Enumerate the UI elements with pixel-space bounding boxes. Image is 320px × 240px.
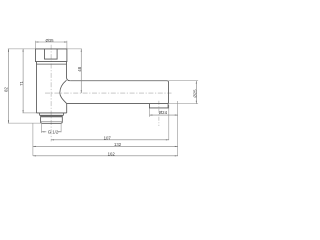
svg-text:Ø24: Ø24 — [159, 110, 167, 115]
arrow aerator right — [175, 115, 178, 116]
arrow dim107 left — [51, 139, 54, 140]
extension line aerator right vertical — [177, 101, 179, 156]
spout top edge — [70, 80, 167, 82]
arrow dim132 right — [175, 146, 178, 147]
body-spout intersection curve — [60, 80, 67, 103]
arrow dim48 top — [81, 49, 82, 52]
spout end face — [167, 81, 168, 104]
extension line wall plane vertical — [32, 123, 34, 156]
extension line base plane left — [23, 112, 37, 114]
dimension 48 line — [80, 49, 82, 93]
arrow dim132 left — [33, 146, 36, 147]
centerline body axis — [50, 45, 52, 142]
svg-text:82: 82 — [3, 87, 8, 92]
arrow aerator left — [150, 115, 153, 116]
extension line spout tip vertical — [168, 105, 170, 140]
svg-text:48: 48 — [77, 67, 82, 72]
svg-text:107: 107 — [104, 135, 111, 140]
svg-text:71: 71 — [19, 81, 24, 86]
dimension G thread line — [42, 131, 62, 133]
arrow cap dim right — [64, 41, 67, 42]
extension line aerator left — [149, 108, 151, 117]
collar below base — [40, 113, 64, 115]
svg-text:132: 132 — [114, 142, 121, 147]
arrow dim82 top — [8, 49, 9, 52]
arrow dim162 right — [175, 155, 178, 156]
arrow dim71 top — [23, 49, 24, 52]
spout bottom edge — [67, 103, 167, 105]
centerline spout axis — [45, 92, 172, 94]
dimension left outer line — [8, 49, 10, 123]
arrow dim71 bottom — [23, 110, 24, 113]
dimension 132 line — [33, 145, 178, 147]
extension line nipple bottom plane — [8, 122, 41, 124]
cap inner rect — [45, 49, 58, 59]
aerator ring — [150, 104, 169, 108]
extension line top (cap top plane) — [8, 48, 82, 50]
svg-text:G 1/2: G 1/2 — [48, 129, 59, 134]
arrow spout-end-dia top — [196, 81, 197, 84]
nipple inner line — [41, 120, 62, 122]
svg-text:Ø35: Ø35 — [45, 38, 53, 43]
arrow G right — [58, 131, 61, 132]
svg-text:Ø25: Ø25 — [192, 89, 197, 97]
arrow G left — [42, 131, 45, 132]
base line — [37, 112, 67, 114]
arrow dim162 left — [33, 155, 36, 156]
arrow dim48 bottom — [81, 90, 82, 93]
extension lines G thread — [42, 124, 62, 133]
arrow spout-end-dia bottom — [196, 101, 197, 104]
dimension cap diameter line — [36, 41, 67, 43]
arrow cap dim left — [36, 41, 39, 42]
extension lines spout end diameter — [169, 81, 199, 104]
nipple thread band — [41, 115, 63, 117]
extension lines cap width — [36, 41, 67, 49]
body top shoulder line — [37, 63, 67, 65]
dimension 107 line — [51, 139, 169, 141]
body right lower edge — [66, 104, 68, 113]
dimension spout end diameter line — [195, 81, 197, 104]
body left edge — [36, 62, 38, 113]
dimension left inner line — [22, 49, 24, 113]
centerline aerator axis — [158, 101, 160, 126]
nipple body — [41, 117, 63, 123]
cap outer rect — [36, 49, 67, 62]
dimension aerator line — [150, 114, 178, 116]
svg-text:162: 162 — [108, 151, 115, 156]
arrow dim82 bottom — [8, 120, 9, 123]
arrow dim107 right — [166, 139, 169, 140]
dimension 162 line — [33, 155, 178, 157]
body right edge with fillet to spout top — [67, 62, 71, 81]
